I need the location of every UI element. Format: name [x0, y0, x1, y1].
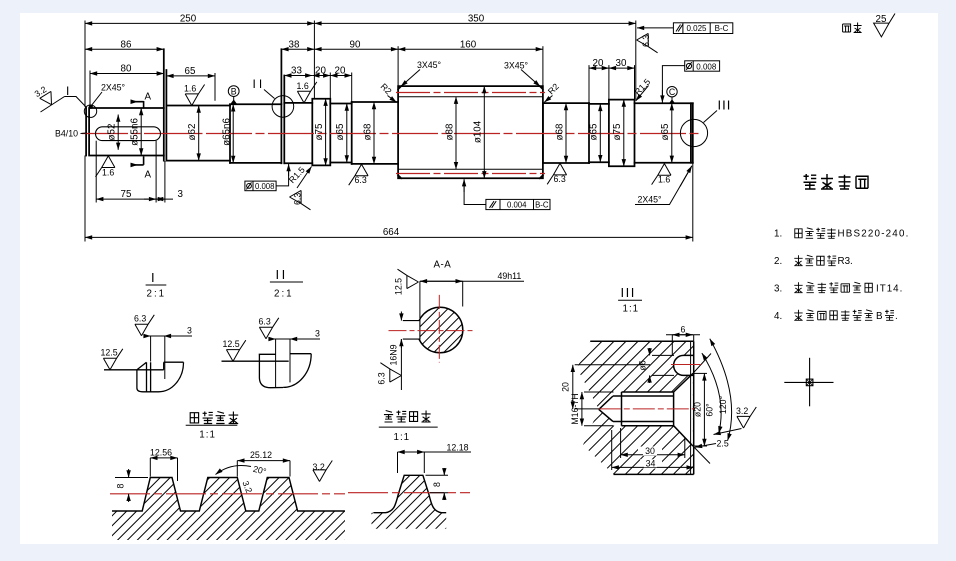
- dim 3 keyway: [144, 198, 173, 200]
- svg-text:12.5: 12.5: [223, 339, 240, 349]
- shoulder ø62/ø65n6: [229, 104, 231, 163]
- surface symbol 6.3 below ø68 left of gear (mirrored): [349, 164, 368, 185]
- svg-text:III: III: [718, 98, 732, 113]
- tolerance frame 0.008 cylindricity right: [685, 61, 720, 71]
- qiyu (rest) label: [843, 23, 862, 33]
- svg-text:80: 80: [121, 64, 132, 75]
- normal profile hatch: [372, 475, 447, 529]
- svg-text:6.3: 6.3: [293, 193, 303, 205]
- shaft segment ø65 small right: [589, 104, 609, 162]
- dim 30 right: [609, 67, 635, 69]
- svg-text:B: B: [231, 86, 237, 96]
- normal profile title: [384, 411, 431, 423]
- svg-text:A: A: [145, 92, 152, 103]
- svg-text:1.: 1.: [774, 229, 782, 240]
- surface 12.5 rotated at 49h11: [398, 269, 419, 288]
- tolerance frame 0.004 B-C below gear: [486, 199, 550, 209]
- dim 75 keyway: [96, 198, 156, 200]
- svg-text:6.3: 6.3: [641, 35, 651, 47]
- dia dim ø55n6: [140, 108, 142, 156]
- svg-text:B-C: B-C: [715, 24, 729, 33]
- shaft segment ø68 right: [543, 103, 589, 163]
- dim 38: [281, 48, 314, 50]
- svg-text:20: 20: [335, 66, 346, 77]
- main red centerline: [82, 133, 700, 135]
- A-A red crosshair: [389, 330, 476, 332]
- surface 6.3 rotated at 16N9 ext: [380, 363, 401, 382]
- svg-text:3.2: 3.2: [736, 406, 748, 416]
- svg-text:ø75: ø75: [612, 123, 623, 140]
- svg-text:ø20: ø20: [693, 402, 703, 417]
- section arrow A bottom: [131, 156, 144, 165]
- detail I surface 6.3: [135, 315, 154, 336]
- detail II surface 12.5: [226, 340, 245, 361]
- svg-text:ø65: ø65: [335, 123, 346, 140]
- svg-text:350: 350: [468, 14, 485, 25]
- svg-text:ø68: ø68: [554, 123, 565, 140]
- svg-text:3.2: 3.2: [313, 462, 325, 472]
- svg-text:0.025: 0.025: [686, 24, 707, 33]
- svg-text:25: 25: [876, 14, 887, 25]
- svg-text:8: 8: [116, 483, 126, 488]
- shaft segment ø55n6 left journal: [86, 108, 164, 156]
- detail II dim 3: [269, 338, 320, 340]
- gear root lines ø88: [398, 97, 543, 170]
- dim 80: [90, 73, 164, 75]
- III hole cutouts white: [599, 374, 693, 446]
- svg-text:3.: 3.: [774, 284, 782, 295]
- svg-text:0.004: 0.004: [507, 201, 527, 210]
- detail circle I at left chamfer: [84, 105, 96, 117]
- tooth profile red pitch line: [110, 493, 345, 495]
- svg-text:A-A: A-A: [434, 260, 452, 271]
- extension lines top: [84, 21, 86, 108]
- svg-text:ø55n6: ø55n6: [130, 118, 141, 146]
- III dim 20: [575, 364, 650, 366]
- III surface 3.2: [737, 407, 756, 428]
- step ø65/ø68: [351, 102, 353, 164]
- III dim ø20: [693, 372, 707, 374]
- III dim 30: [620, 428, 622, 458]
- svg-text:1:1: 1:1: [199, 430, 216, 441]
- svg-text:ø62: ø62: [187, 124, 198, 141]
- svg-text:12.5: 12.5: [101, 348, 118, 358]
- svg-text:120°: 120°: [718, 396, 728, 414]
- svg-text:6.3: 6.3: [355, 175, 367, 185]
- shoulder ø55/ø62: [164, 49, 167, 160]
- collar ø75 left: [312, 99, 330, 166]
- svg-text:I: I: [151, 270, 155, 285]
- step ø68/ø65 right: [588, 103, 590, 163]
- svg-text:1:1: 1:1: [623, 304, 640, 315]
- svg-text:HBS220-240.: HBS220-240.: [838, 229, 910, 240]
- surface symbol 1.6 below right journal (mirrored): [652, 164, 671, 185]
- III angle arcs: [702, 353, 721, 433]
- svg-text:C: C: [669, 87, 676, 97]
- surface symbol 6.3 below ø68 right of gear (mirrored): [547, 163, 566, 184]
- dia dim ø88: [455, 97, 457, 170]
- dim 12.18: [397, 452, 399, 473]
- svg-text:1.6: 1.6: [297, 81, 309, 91]
- dim 33: [284, 75, 312, 77]
- svg-text:3: 3: [178, 189, 184, 200]
- svg-text:65: 65: [185, 66, 196, 77]
- svg-text:25.12: 25.12: [250, 450, 272, 460]
- dia dim ø75 left collar: [325, 99, 327, 166]
- svg-text:ø65: ø65: [660, 123, 671, 140]
- dim 16N9: [400, 312, 402, 321]
- svg-text:2X45°: 2X45°: [101, 83, 125, 93]
- dia dim ø68 left: [373, 102, 375, 164]
- surface symbol 6.3 rotated at 350 ext line: [637, 33, 658, 52]
- dia dim ø75 right collar: [623, 100, 625, 167]
- svg-text:6: 6: [681, 325, 686, 335]
- dim texts horizontal: [121, 14, 627, 239]
- svg-text:664: 664: [383, 227, 400, 238]
- svg-text:I: I: [66, 84, 69, 98]
- svg-text:49h11: 49h11: [498, 271, 522, 281]
- svg-text:II: II: [276, 267, 288, 282]
- svg-text:ø65: ø65: [589, 123, 600, 140]
- svg-text:III: III: [621, 285, 636, 300]
- dim 86: [85, 48, 164, 50]
- svg-text:1.6: 1.6: [658, 175, 670, 185]
- surface symbol 3.2 rotated at left end: [41, 97, 65, 113]
- svg-text:2:1: 2:1: [147, 289, 167, 300]
- svg-text:3X45°: 3X45°: [417, 60, 441, 70]
- svg-text:A: A: [145, 170, 152, 181]
- svg-text:2X45°: 2X45°: [638, 195, 662, 205]
- svg-text:6.3: 6.3: [377, 372, 387, 384]
- normal profile outline: [373, 475, 446, 512]
- title jishu yaoqiu (technical requirements): [804, 174, 869, 189]
- keyway slot on left journal: [96, 127, 161, 141]
- angle 20 deg arc: [216, 466, 252, 475]
- dia dim ø104: [483, 86, 485, 178]
- dia dim texts rotated: [107, 118, 672, 146]
- svg-text:ø75: ø75: [314, 123, 325, 140]
- III red axes: [599, 408, 695, 410]
- svg-text:M16-7H: M16-7H: [570, 393, 580, 424]
- svg-text:38: 38: [289, 39, 300, 50]
- dim 65: [166, 75, 215, 77]
- dim 20 right: [589, 67, 609, 69]
- surface symbol 1.6 on ø62 top: [185, 85, 204, 106]
- svg-text:12.56: 12.56: [150, 447, 172, 457]
- surface symbol 6.3 rotated near left collar leader: [290, 190, 311, 209]
- svg-text:ø68: ø68: [362, 123, 373, 140]
- dim 664: [85, 236, 693, 238]
- svg-text:34: 34: [646, 458, 656, 468]
- dia dim ø65 right journal: [671, 103, 673, 163]
- detail circle III at right end: [680, 119, 707, 146]
- shaft segment ø68 before gear: [352, 102, 398, 164]
- svg-text:60°: 60°: [705, 403, 715, 416]
- dia dim ø65 small right: [599, 104, 601, 162]
- III outline strokes: [590, 341, 711, 474]
- datum C circle: [667, 87, 677, 97]
- dia dim ø65 small left: [346, 104, 348, 163]
- svg-text:30: 30: [645, 446, 655, 456]
- dim 160: [398, 48, 543, 50]
- svg-text:B-C: B-C: [535, 201, 549, 210]
- dia dim ø68 right: [565, 103, 567, 163]
- tooth profile outline: [112, 478, 345, 512]
- dia dim ø52: [117, 115, 119, 150]
- tooth profile hatch: [112, 478, 345, 541]
- detail I dim 3: [144, 335, 192, 337]
- svg-text:ø65n6: ø65n6: [222, 118, 233, 146]
- tolerance frame 0.008 left below bearing: [245, 181, 276, 191]
- surface 3.2 standalone: [313, 461, 332, 482]
- svg-text:8: 8: [432, 482, 442, 487]
- crosshair symbol: [784, 358, 833, 407]
- svg-text:B4/10: B4/10: [55, 129, 78, 139]
- svg-text:3X45°: 3X45°: [504, 61, 528, 71]
- tolerance frame 0.025 B-C top right: [673, 23, 732, 34]
- svg-text:IT14.: IT14.: [876, 284, 903, 295]
- surface symbol 1.6 below ø55 left (mirrored): [96, 156, 115, 177]
- svg-text:1.6: 1.6: [184, 84, 196, 94]
- III dim 6: [671, 335, 673, 355]
- svg-text:86: 86: [121, 39, 132, 50]
- dim 8 right: [426, 474, 449, 476]
- III hatch block: [577, 341, 694, 474]
- dim 350: [314, 22, 635, 24]
- svg-text:16N9: 16N9: [389, 344, 399, 365]
- surface symbol 1.6 on ø68 left top: [297, 82, 316, 103]
- shaft segment ø65n6 bearing seat: [230, 104, 281, 163]
- gear/worm section ø104 with 3x45 chamfers: [398, 86, 543, 178]
- svg-text:B: B: [876, 311, 883, 322]
- svg-text:2.5: 2.5: [717, 439, 729, 449]
- detail II outline: [222, 354, 312, 388]
- svg-text:R3.: R3.: [838, 256, 853, 267]
- svg-text:II: II: [253, 77, 266, 91]
- datum B circle: [228, 86, 239, 97]
- svg-text:ø6: ø6: [638, 360, 648, 370]
- gear red pitch lines: [396, 92, 545, 94]
- shaft segment ø68 left: [284, 103, 312, 163]
- svg-text:250: 250: [180, 14, 197, 25]
- svg-text:33: 33: [291, 66, 302, 77]
- svg-text:90: 90: [350, 39, 361, 50]
- III dim 34: [611, 430, 613, 470]
- svg-text:6.3: 6.3: [259, 317, 271, 327]
- III dim M16-7H: [584, 391, 614, 393]
- dim 250: [85, 22, 314, 24]
- detail I surface 12.5: [103, 349, 122, 370]
- svg-text:20: 20: [561, 382, 571, 392]
- svg-text:4.: 4.: [774, 311, 782, 322]
- svg-text:6.3: 6.3: [134, 314, 146, 324]
- dim 12.56: [149, 458, 151, 477]
- axial profile title: [190, 412, 238, 424]
- svg-text:3: 3: [187, 326, 192, 336]
- dim 20 left b: [330, 75, 351, 77]
- svg-text:0.008: 0.008: [255, 182, 275, 191]
- svg-text:ø52: ø52: [107, 124, 118, 141]
- normal profile red line: [348, 492, 470, 494]
- A-A circle hatched: [417, 307, 463, 353]
- A-A keyway slot: [403, 321, 420, 340]
- svg-text:6.3: 6.3: [554, 174, 566, 184]
- svg-text:2:1: 2:1: [274, 289, 294, 300]
- svg-text:20: 20: [315, 66, 326, 77]
- dia dim ø62: [198, 106, 200, 161]
- svg-text:2.: 2.: [774, 256, 782, 267]
- right end face with chamfer: [691, 103, 693, 163]
- dim 20 left a: [312, 75, 330, 77]
- shaft segment ø62: [166, 106, 230, 161]
- shaft segment ø65 right journal: [635, 103, 693, 163]
- detail I outline: [104, 362, 184, 392]
- relief groove lines: [281, 49, 284, 163]
- svg-text:12.5: 12.5: [394, 278, 404, 295]
- dia dim ø65n6: [232, 104, 234, 163]
- svg-text:1.6: 1.6: [102, 168, 114, 178]
- detail circle II at relief groove: [272, 96, 294, 118]
- collar ø75 right: [609, 100, 635, 167]
- svg-text:3: 3: [315, 329, 320, 339]
- svg-text:0.008: 0.008: [696, 62, 717, 71]
- III dim ø6: [652, 354, 674, 356]
- svg-text:12.18: 12.18: [447, 443, 469, 453]
- svg-text:20: 20: [593, 58, 604, 69]
- dim 8 left: [115, 477, 148, 479]
- svg-text:30: 30: [616, 58, 627, 69]
- shaft segment ø65 small left: [330, 104, 351, 163]
- dim 90: [314, 48, 398, 50]
- svg-text:ø88: ø88: [444, 123, 455, 140]
- dim 49h11: [419, 281, 421, 318]
- svg-text:.: .: [895, 311, 898, 322]
- detail II surface 6.3: [259, 318, 278, 339]
- svg-text:1:1: 1:1: [394, 432, 411, 443]
- svg-text:ø104: ø104: [473, 120, 484, 143]
- rest surface symbol 25: [874, 14, 895, 37]
- section arrow A top: [131, 101, 144, 109]
- svg-text:75: 75: [121, 189, 132, 200]
- svg-text:160: 160: [460, 39, 477, 50]
- dim 25.12: [236, 461, 238, 477]
